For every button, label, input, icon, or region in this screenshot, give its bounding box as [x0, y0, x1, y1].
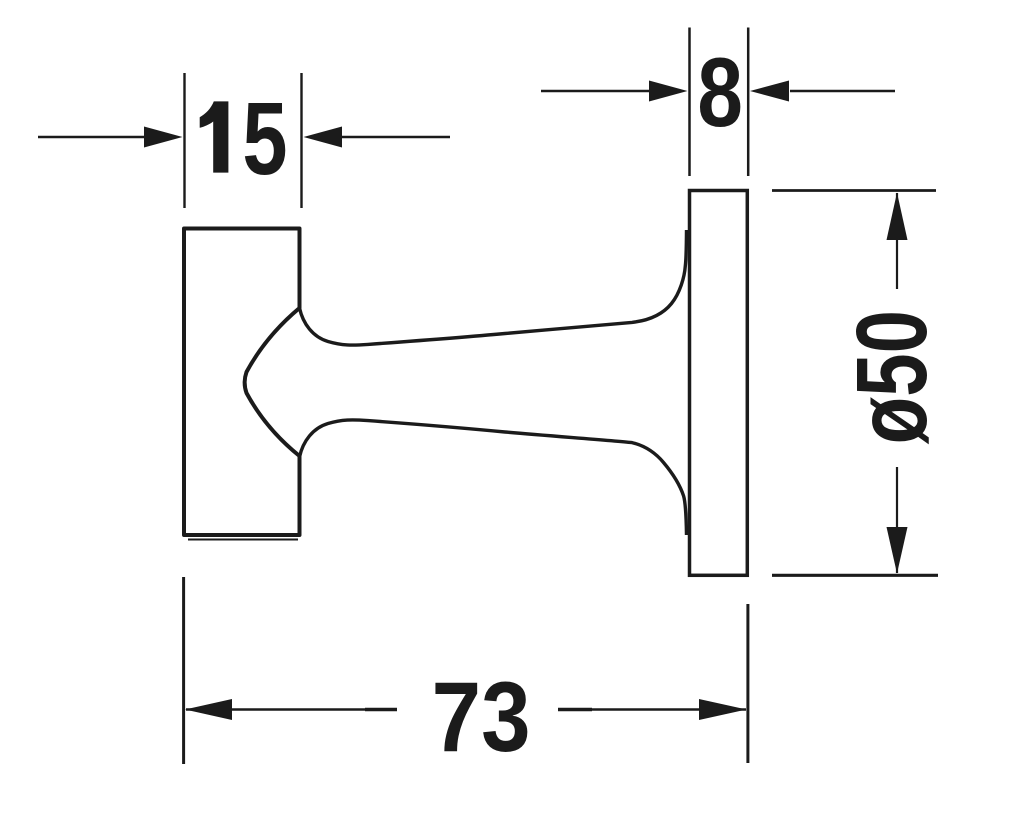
dimension 8: right extension line: [747, 28, 750, 177]
svg-text:ø50: ø50: [837, 310, 949, 444]
dimension 73: left extension line: [182, 577, 185, 764]
dimension 8: value label: [697, 38, 743, 148]
dimension 15: value label digit 5: [242, 81, 287, 197]
dimension 15: right leader line: [341, 136, 450, 138]
dimension 8: left leader line: [541, 90, 650, 92]
dimension 15: right extension line: [300, 73, 302, 208]
dimension 8: right arrowhead: [750, 81, 789, 102]
dimension 73: right arrowhead: [699, 699, 747, 720]
dimension 15: left extension line: [183, 73, 185, 208]
dimension 73: right dimension line: [558, 708, 746, 710]
dimension 8: right leader line: [790, 90, 895, 92]
svg-text:5: 5: [242, 81, 287, 197]
dimension 8: left arrowhead: [649, 81, 688, 102]
dimension diameter 50: lower dimension line: [896, 467, 898, 573]
svg-text:8: 8: [697, 38, 743, 148]
dimension diameter 50: bottom extension line: [772, 574, 938, 577]
dimension 8: left extension line: [688, 28, 691, 177]
dimension 73: right extension line: [746, 604, 749, 763]
dimension 15: value label digit 1: [200, 101, 229, 172]
dimension 73: left dimension line dash: [365, 708, 397, 712]
dimension diameter 50: lower arrowhead: [887, 527, 908, 574]
dimension 15: right arrowhead: [304, 127, 343, 148]
knob face outline (left cylinder side view with chevron notch): [184, 229, 300, 536]
svg-text:73: 73: [432, 662, 531, 772]
dimension diameter 50: upper dimension line: [896, 193, 898, 289]
dimension diameter 50: top extension line: [772, 189, 936, 192]
dimension 73: value label: [432, 662, 531, 772]
stem upper profile curve: [300, 230, 687, 345]
dimension diameter 50: upper arrowhead: [887, 193, 908, 241]
dimension 73: left arrowhead: [185, 699, 232, 720]
dimension 73: right dimension line dash: [558, 708, 592, 712]
dimension diameter 50: value label (rotated): [837, 310, 949, 444]
wall plate outline (right flange): [690, 191, 748, 576]
dimension 15: left leader line: [38, 136, 147, 138]
stem lower profile curve: [300, 420, 687, 535]
knob bottom face edge line: [188, 539, 298, 541]
dimension 15: left arrowhead: [144, 127, 183, 148]
dimension 73: left dimension line: [186, 708, 397, 710]
